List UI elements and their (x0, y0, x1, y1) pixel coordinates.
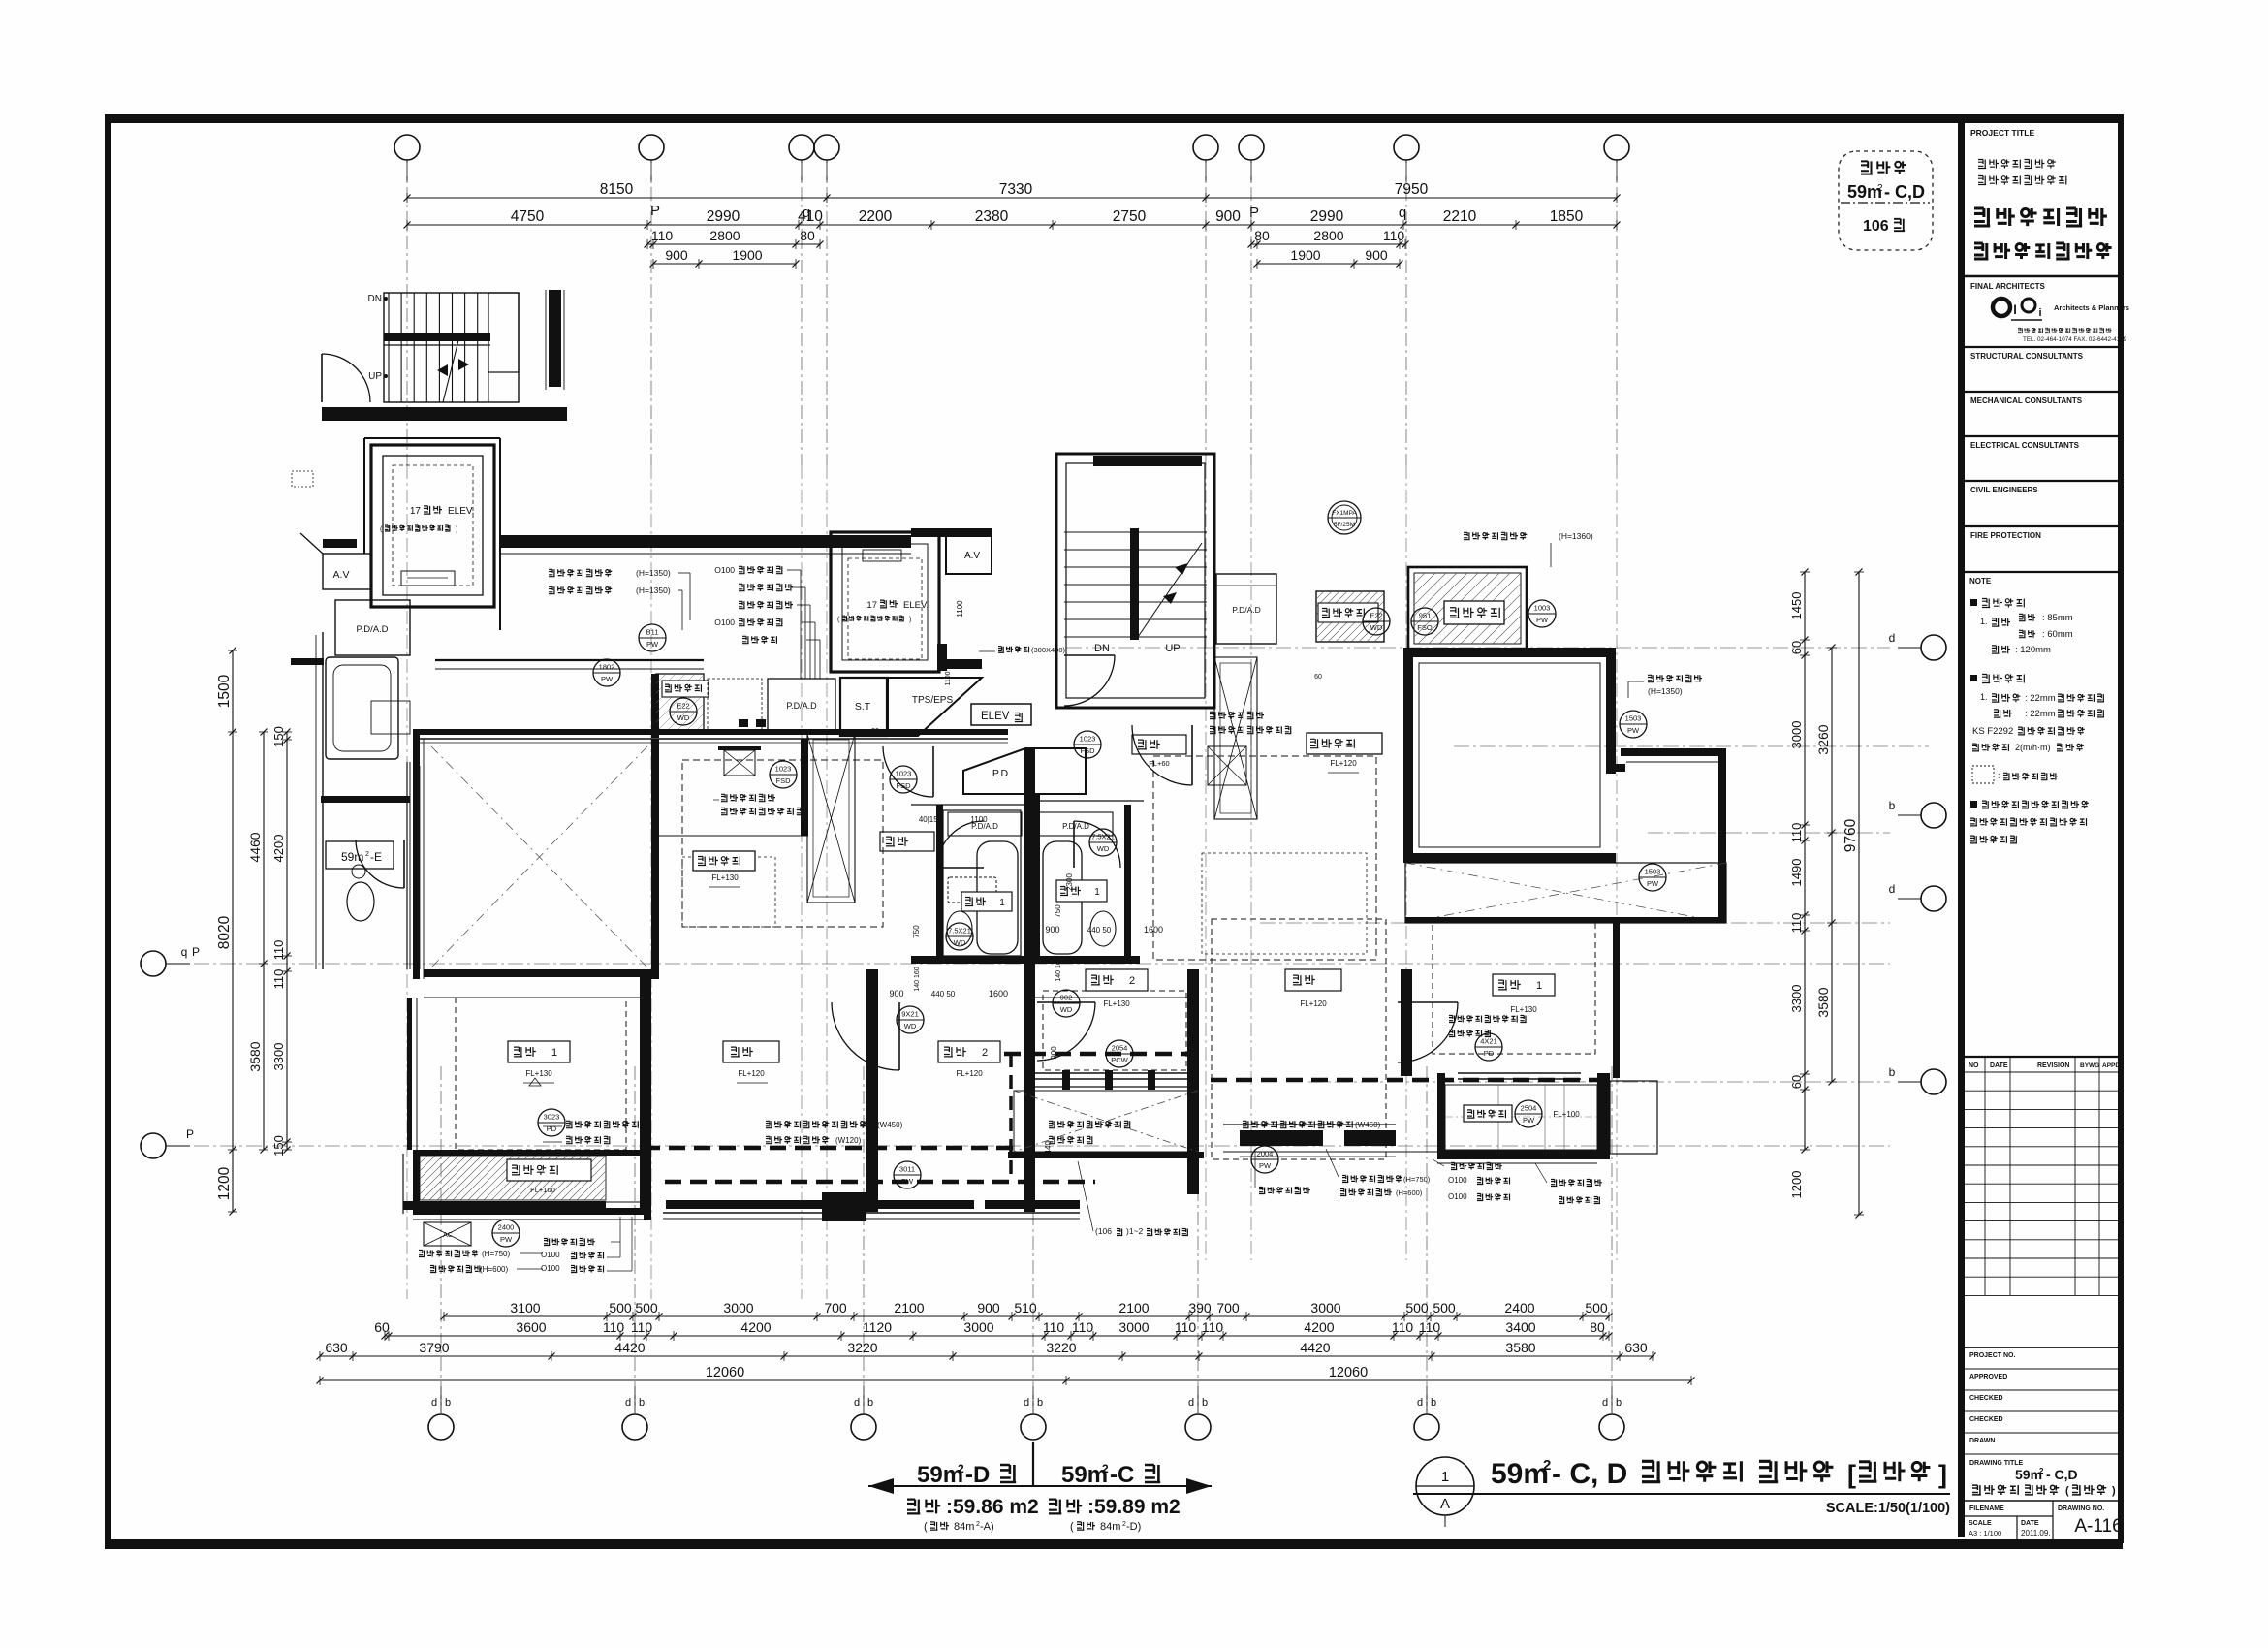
wall below top-left stair (323, 539, 357, 548)
svg-text:40|150: 40|150 (919, 815, 943, 824)
svg-text:3000: 3000 (1118, 1319, 1149, 1335)
svg-text:2011.09.: 2011.09. (2021, 1529, 2051, 1537)
svg-text:110: 110 (1419, 1319, 1441, 1335)
bottom leader annotations left (419, 1251, 479, 1257)
leader texts right-top (1464, 532, 1527, 539)
svg-text:DN: DN (368, 294, 382, 304)
title block: revision table (1965, 1056, 2118, 1058)
svg-text:O100: O100 (1448, 1192, 1467, 1201)
svg-text:: 22mm: : 22mm (2025, 693, 2056, 704)
svg-text:(: ( (2065, 1485, 2069, 1497)
svg-text:: 120mm: : 120mm (2015, 645, 2051, 655)
svg-text:q: q (181, 945, 188, 959)
svg-text:2300: 2300 (1065, 873, 1074, 891)
left unit interior walls (651, 739, 659, 979)
tag 7.5X21/WD (946, 923, 973, 950)
svg-text:): ) (2112, 1485, 2116, 1497)
elevator 1 (left) (371, 445, 494, 607)
svg-text:900: 900 (1215, 208, 1241, 225)
svg-text:(W450): (W450) (1355, 1121, 1381, 1129)
svg-text:PW: PW (1627, 726, 1640, 735)
svg-text::59.89 m2: :59.89 m2 (1087, 1496, 1181, 1518)
title block: note section (1965, 571, 2118, 573)
sheet border frame (110, 118, 2123, 1539)
P.D wedge (963, 748, 1086, 794)
grid lines horizontal (194, 963, 1890, 965)
svg-text:1: 1 (551, 1047, 557, 1059)
svg-text:: 60mm: : 60mm (2042, 629, 2073, 640)
svg-text:110: 110 (271, 969, 286, 990)
bedroom1 label (508, 1041, 570, 1062)
svg-text:2440: 2440 (1044, 1141, 1053, 1158)
svg-text:12060: 12060 (1329, 1365, 1368, 1380)
NE extension room (1621, 748, 1726, 756)
bottom leader annotations right (1451, 1163, 1502, 1170)
svg-text:59m: 59m (917, 1462, 963, 1488)
svg-text:- C,D: - C,D (1884, 182, 1925, 202)
svg-text:FINAL ARCHITECTS: FINAL ARCHITECTS (1970, 282, 2046, 291)
svg-text:4750: 4750 (511, 208, 545, 225)
svg-text:ELEV.: ELEV. (448, 506, 474, 517)
left shaft xbox tall (807, 734, 855, 903)
svg-text:2800: 2800 (1313, 228, 1343, 243)
tag 2400/PW (492, 1220, 520, 1247)
svg-text:ELEV.: ELEV. (903, 600, 929, 611)
tag 951/FSO (1411, 608, 1438, 635)
svg-text:P: P (1249, 205, 1259, 221)
svg-text:106: 106 (1863, 218, 1889, 235)
svg-text:80: 80 (1254, 228, 1270, 243)
svg-text:P.D/A.D: P.D/A.D (1062, 822, 1089, 831)
svg-text:1900: 1900 (1290, 247, 1320, 263)
svg-text:4200: 4200 (271, 835, 286, 863)
svg-text:3580: 3580 (247, 1041, 263, 1071)
svg-text:)1~2: )1~2 (1126, 1226, 1144, 1236)
balcony3 right (1316, 591, 1384, 642)
svg-text:1.: 1. (1980, 617, 1988, 626)
svg-text:500: 500 (1405, 1300, 1429, 1315)
svg-text:2400: 2400 (498, 1223, 515, 1232)
svg-text:900: 900 (665, 247, 688, 263)
svg-text:110: 110 (1043, 1319, 1065, 1335)
leader text 300x400 (998, 647, 1029, 653)
title block: fire protection (1965, 525, 2118, 527)
svg-text:4420: 4420 (614, 1340, 645, 1355)
svg-text::: : (1998, 771, 2000, 780)
svg-text:60: 60 (1789, 1075, 1804, 1089)
svg-text:P.D/A.D: P.D/A.D (356, 624, 388, 635)
svg-text:3600: 3600 (516, 1319, 546, 1335)
svg-text:UP: UP (368, 371, 382, 382)
svg-text:9760: 9760 (1843, 818, 1859, 852)
grid bubbles bottom (428, 1414, 454, 1440)
svg-text:PW: PW (1523, 1116, 1535, 1125)
svg-text:7.5X21: 7.5X21 (1091, 833, 1115, 841)
area texts (907, 1500, 940, 1514)
svg-text:630: 630 (1624, 1340, 1648, 1355)
pipe zone beside balcony3 (708, 679, 762, 732)
svg-text:(H=600): (H=600) (480, 1265, 508, 1274)
svg-text:-D: -D (965, 1462, 990, 1488)
svg-text:FL+120: FL+120 (738, 1069, 765, 1078)
svg-text:59m: 59m (2015, 1467, 2042, 1482)
svg-text:b: b (1889, 799, 1896, 812)
svg-text:MECHANICAL CONSULTANTS: MECHANICAL CONSULTANTS (1970, 396, 2083, 405)
svg-text:2504: 2504 (1521, 1104, 1537, 1113)
svg-text:E22: E22 (677, 702, 689, 711)
tag 1023/FSD (890, 766, 917, 793)
svg-text:1900: 1900 (732, 247, 762, 263)
svg-text:1120: 1120 (863, 1319, 892, 1335)
svg-text:2004: 2004 (1257, 1150, 1274, 1158)
A.V room top-left (323, 554, 371, 589)
svg-text:4X21: 4X21 (1480, 1037, 1497, 1046)
svg-text:REVISION: REVISION (2037, 1062, 2069, 1069)
title block: civil engineers (1965, 480, 2118, 482)
svg-text:d: d (1889, 631, 1896, 645)
svg-text:1600: 1600 (989, 989, 1008, 998)
grid bubbles right (1921, 635, 1946, 660)
left unit west wall upper room (413, 729, 420, 979)
bedroom1 left dashes (456, 998, 626, 1150)
svg-text:750: 750 (912, 925, 921, 938)
svg-text:[: [ (1847, 1460, 1856, 1489)
svg-text:-C: -C (1110, 1462, 1134, 1488)
svg-text:3220: 3220 (1046, 1340, 1076, 1355)
svg-text:80: 80 (1590, 1319, 1605, 1335)
59m2-E label (326, 841, 394, 869)
svg-text:: 85mm: : 85mm (2042, 613, 2073, 623)
tag 4X21/PD (1475, 1033, 1502, 1061)
svg-text:P: P (186, 1127, 194, 1141)
svg-text:60: 60 (374, 1319, 390, 1335)
svg-text:PW: PW (646, 640, 659, 649)
svg-text:2100: 2100 (1118, 1300, 1149, 1315)
svg-text:- C,D: - C,D (2046, 1467, 2078, 1482)
svg-text:902: 902 (1060, 994, 1073, 1002)
svg-text:3580: 3580 (1815, 987, 1831, 1017)
svg-text:(: ( (924, 1521, 928, 1533)
svg-text:3580: 3580 (1505, 1340, 1535, 1355)
svg-text:7950: 7950 (1395, 181, 1429, 198)
title block: scale/date (1965, 1515, 2053, 1517)
svg-text:P: P (192, 945, 200, 959)
svg-text:-D): -D) (1126, 1521, 1141, 1533)
svg-text:E22: E22 (1370, 612, 1382, 620)
svg-text:3790: 3790 (419, 1340, 449, 1355)
svg-text:900: 900 (977, 1300, 1000, 1315)
svg-text:4460: 4460 (247, 832, 263, 862)
svg-text:3000: 3000 (723, 1300, 753, 1315)
svg-text:CHECKED: CHECKED (1969, 1395, 2003, 1402)
svg-text:1600: 1600 (1144, 925, 1163, 935)
svg-text:FSD: FSD (1081, 746, 1096, 755)
dimension row bottom tier1 (444, 1315, 1609, 1317)
svg-text:1: 1 (1441, 1469, 1449, 1485)
grid bubbles top (394, 135, 420, 160)
svg-text:2: 2 (958, 1462, 964, 1475)
svg-text:110: 110 (1202, 1319, 1224, 1335)
right unit room dashed boxes (1043, 991, 1186, 1070)
svg-text:l: l (2013, 302, 2017, 317)
title block: structural consultants (1965, 346, 2118, 348)
svg-text:500: 500 (1433, 1300, 1456, 1315)
svg-text:ELECTRICAL CONSULTANTS: ELECTRICAL CONSULTANTS (1970, 441, 2080, 450)
svg-text:90: 90 (871, 728, 879, 735)
svg-text:2: 2 (2039, 1467, 2044, 1475)
svg-text:1503: 1503 (1645, 868, 1661, 876)
entrance left unit (883, 746, 933, 797)
svg-text:P.D: P.D (992, 768, 1009, 779)
svg-text:3400: 3400 (1505, 1319, 1535, 1335)
svg-text:1: 1 (999, 898, 1005, 908)
svg-text:O100: O100 (1448, 1176, 1467, 1185)
svg-text:700: 700 (1216, 1300, 1240, 1315)
tag 902/WD (1053, 990, 1080, 1017)
A.V room center (946, 535, 992, 574)
svg-text:WD: WD (904, 1022, 917, 1030)
tag 2054/PCW (1106, 1040, 1133, 1067)
svg-text:P.D/A.D: P.D/A.D (786, 701, 817, 711)
svg-text:WD: WD (677, 713, 690, 722)
svg-text:PROJECT TITLE: PROJECT TITLE (1970, 128, 2034, 138)
svg-text:FL+100: FL+100 (1553, 1110, 1580, 1119)
svg-text:B11: B11 (646, 628, 659, 637)
left unit bath (943, 810, 1021, 956)
svg-text:b: b (639, 1397, 645, 1409)
title block: architects section (1965, 275, 2118, 278)
svg-text:140 160: 140 160 (1055, 957, 1062, 981)
svg-text:A3 : 1/100: A3 : 1/100 (1969, 1529, 2001, 1537)
svg-text:3000: 3000 (1310, 1300, 1340, 1315)
svg-text:80: 80 (800, 228, 815, 243)
svg-text:SCALE: SCALE (1969, 1520, 1992, 1527)
svg-text:1023: 1023 (896, 770, 912, 778)
svg-text:5F/25M: 5F/25M (1334, 522, 1355, 528)
tag 1802/PW (593, 659, 620, 686)
svg-text:500: 500 (1585, 1300, 1608, 1315)
left unit west window band lower (407, 998, 412, 1150)
balcony2 (1458, 1072, 1581, 1074)
svg-text:12060: 12060 (706, 1365, 744, 1380)
svg-text:FL+130: FL+130 (711, 873, 739, 882)
svg-text:): ) (909, 617, 911, 623)
svg-text:1200: 1200 (216, 1166, 233, 1200)
svg-text:PD: PD (1484, 1049, 1495, 1058)
svg-text:59m: 59m (1491, 1458, 1549, 1490)
THK notes upper (721, 794, 775, 801)
leader texts top-middle (739, 566, 783, 573)
svg-text:150: 150 (271, 726, 286, 747)
wall above balcony3 (435, 659, 704, 661)
svg-text:17: 17 (410, 506, 422, 517)
svg-text:60: 60 (1314, 674, 1322, 681)
balcony3 left (656, 674, 704, 734)
svg-text:PW: PW (901, 1177, 914, 1186)
svg-text:630: 630 (325, 1340, 348, 1355)
svg-text:1500: 1500 (216, 674, 233, 708)
svg-text:1100: 1100 (970, 815, 988, 824)
svg-text:59m: 59m (341, 850, 363, 864)
svg-text:1200: 1200 (1789, 1171, 1804, 1199)
svg-text:750: 750 (1054, 904, 1062, 918)
svg-text:FSD: FSD (897, 781, 912, 790)
svg-text:q: q (1399, 205, 1406, 221)
dimension row top tier1: 8150 7330 7950 (407, 197, 1617, 199)
svg-text:STRUCTURAL CONSULTANTS: STRUCTURAL CONSULTANTS (1970, 352, 2084, 361)
svg-text:APPROVED: APPROVED (1969, 1374, 2007, 1380)
right unit bed2 south window (1025, 1072, 1192, 1074)
svg-text:NO: NO (1969, 1062, 1979, 1069)
svg-text:2100: 2100 (894, 1300, 924, 1315)
svg-text:d: d (1024, 1397, 1029, 1409)
svg-text:3000: 3000 (1789, 721, 1804, 749)
svg-text:110: 110 (1392, 1319, 1414, 1335)
svg-text:WD: WD (1097, 844, 1110, 853)
svg-text:110: 110 (631, 1319, 653, 1335)
dimension row bottom tier3 (320, 1355, 1653, 1357)
grid bubbles left (141, 951, 166, 976)
svg-text:APPD: APPD (2102, 1062, 2120, 1069)
AC xbox bottom-left (424, 1222, 471, 1246)
P.D/A.D left (335, 600, 410, 655)
room divider walls lower left unit (640, 969, 651, 1212)
tag 2004/PW (1251, 1146, 1278, 1173)
svg-text:84m: 84m (1100, 1521, 1120, 1533)
svg-text:7330: 7330 (999, 181, 1033, 198)
svg-text:951: 951 (1419, 612, 1432, 620)
leader texts big room right (1648, 675, 1702, 681)
svg-text:FILENAME: FILENAME (1969, 1505, 2004, 1512)
svg-text:110: 110 (1789, 913, 1804, 934)
svg-text:FL+130: FL+130 (1103, 999, 1130, 1008)
tag 3023/PD (538, 1109, 565, 1136)
svg-text:d: d (1889, 882, 1896, 896)
svg-text:59m: 59m (1061, 1462, 1108, 1488)
svg-text:(W450): (W450) (877, 1121, 903, 1129)
bedroom2 label left unit (938, 1041, 1000, 1062)
svg-text:i: i (2038, 307, 2041, 319)
svg-text:1023: 1023 (1080, 735, 1096, 744)
svg-text:(H=1350): (H=1350) (636, 568, 671, 578)
left unit kitchen dashed box (682, 760, 883, 927)
svg-text:1802: 1802 (599, 663, 615, 672)
svg-text:110: 110 (1789, 823, 1804, 843)
svg-text:9X21: 9X21 (901, 1010, 919, 1019)
svg-text:2: 2 (365, 851, 369, 858)
title block: electrical consultants (1965, 435, 2118, 437)
P.D/A.D top band (768, 679, 835, 734)
svg-text:2210: 2210 (1443, 208, 1477, 225)
svg-text:d: d (1188, 1397, 1194, 1409)
svg-text:FL+120: FL+120 (1300, 999, 1327, 1008)
svg-text:KS F2292: KS F2292 (1972, 726, 2013, 737)
tag 1503/PW (1639, 864, 1666, 891)
right unit interior walls lower (1187, 969, 1199, 1194)
svg-text:DRAWN: DRAWN (1969, 1438, 1995, 1444)
svg-text:b: b (1431, 1397, 1436, 1409)
svg-text:2380: 2380 (975, 208, 1009, 225)
svg-text:390: 390 (1188, 1300, 1212, 1315)
svg-text:Architects & Planners: Architects & Planners (2054, 303, 2129, 312)
entrance right unit (1132, 725, 1192, 785)
svg-text:8150: 8150 (600, 181, 634, 198)
svg-text:d: d (1602, 1397, 1608, 1409)
svg-text:S.T: S.T (855, 701, 871, 713)
svg-text:4200: 4200 (740, 1319, 771, 1335)
svg-text:2054: 2054 (1112, 1044, 1128, 1053)
svg-text:WD: WD (954, 938, 966, 947)
svg-text:3011: 3011 (899, 1165, 915, 1174)
svg-text:500: 500 (609, 1300, 632, 1315)
svg-text:2400: 2400 (1504, 1300, 1534, 1315)
living label left (723, 1041, 779, 1062)
svg-text:500: 500 (635, 1300, 658, 1315)
tag B11/PW (639, 624, 666, 651)
stamp: 확장형 59m2-C,D 106동 (1839, 151, 1933, 250)
svg-text:900: 900 (1050, 1046, 1058, 1060)
svg-text:510: 510 (1014, 1300, 1037, 1315)
svg-text:2(m/h·m): 2(m/h·m) (2015, 743, 2051, 752)
right unit bedroom2 label (1086, 969, 1148, 991)
tag 1023/FSD (1074, 731, 1101, 758)
svg-text:FL+120: FL+120 (956, 1069, 983, 1078)
svg-text:: 22mm: : 22mm (2025, 709, 2056, 719)
TPS/EPS room (888, 678, 982, 736)
title block: filename / drawing no (1965, 1500, 2118, 1502)
svg-text:DN: DN (1094, 643, 1110, 654)
svg-text:DATE: DATE (2021, 1520, 2039, 1527)
main drawing title (1416, 1457, 1474, 1515)
svg-text:900: 900 (1045, 925, 1059, 935)
svg-text:(H=1350): (H=1350) (1648, 686, 1683, 696)
svg-text:1100: 1100 (956, 600, 964, 618)
dimension column right (1858, 572, 1860, 1215)
dimension column left (232, 650, 234, 1212)
svg-text:O100: O100 (714, 565, 735, 575)
svg-text:b: b (445, 1397, 451, 1409)
svg-text:1503: 1503 (1625, 714, 1642, 723)
svg-text:-E: -E (370, 850, 382, 864)
svg-text:A-116: A-116 (2074, 1516, 2122, 1537)
svg-text:2: 2 (982, 1047, 988, 1059)
S.T room (840, 678, 887, 736)
party wall center (1024, 748, 1035, 1212)
svg-text:b: b (1889, 1065, 1896, 1079)
P.D/A.D right of stair (1216, 574, 1276, 644)
svg-text:O100: O100 (714, 618, 735, 627)
left unit south walls & windows (413, 1150, 420, 1214)
right unit: bath & entrance (1033, 795, 1040, 960)
balcony1 (420, 1156, 606, 1200)
dimension row bottom tier4: 12060 x2 (320, 1379, 1691, 1381)
stair top-left (384, 293, 519, 402)
svg-text:PW: PW (1536, 616, 1549, 624)
svg-text:(106: (106 (1095, 1226, 1112, 1236)
svg-text:2800: 2800 (709, 228, 740, 243)
svg-text:60: 60 (1789, 641, 1804, 654)
tag 3011/PW (894, 1161, 921, 1188)
svg-text:2200: 2200 (859, 208, 893, 225)
svg-text:TEL. 02-464-1074 FAX. 02-6442-: TEL. 02-464-1074 FAX. 02-6442-4139 (2023, 336, 2127, 343)
svg-text:A.V: A.V (333, 569, 350, 581)
svg-text:410: 410 (798, 208, 823, 225)
svg-text:PROJECT NO.: PROJECT NO. (1969, 1352, 2016, 1359)
svg-text:(H=600): (H=600) (1396, 1188, 1423, 1197)
svg-text:900: 900 (1365, 247, 1388, 263)
svg-text:(W120): (W120) (835, 1136, 862, 1145)
svg-text:UP: UP (1165, 643, 1180, 654)
